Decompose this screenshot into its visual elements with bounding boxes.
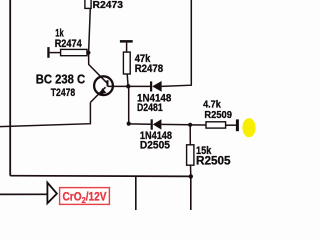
svg-text:R2473: R2473	[93, 0, 124, 11]
label: CrO2/12V red box	[60, 188, 110, 205]
terminal: supply T-bar above R2478	[120, 40, 133, 43]
wire: bottom horizontal rail	[10, 175, 191, 178]
wire: emitter down and left to edge	[0, 102, 90, 126]
wire: base lead (vertical + diagonal)	[89, 53, 108, 83]
node: collector junction	[126, 84, 130, 88]
wire: junction to diode D2481	[128, 85, 150, 87]
resistor R2505	[187, 125, 231, 177]
svg-text:R2474: R2474	[55, 38, 83, 50]
diode D2481 1N4148	[137, 81, 171, 114]
wire: left vertical rail	[9, 0, 11, 176]
node: junction at second diode line	[127, 122, 131, 126]
resistor R2478	[123, 43, 163, 87]
svg-text:D2481: D2481	[137, 102, 163, 114]
diode D2505 1N4148	[140, 119, 172, 151]
wire: junction to diode D2505	[129, 123, 151, 125]
node: base junction	[86, 51, 90, 55]
wire: D2505 cathode to junction	[161, 123, 190, 125]
svg-text:R2478: R2478	[135, 63, 164, 75]
wire: D2481 cathode to top-right rail	[162, 0, 192, 86]
svg-text:D2505: D2505	[140, 140, 170, 152]
node: bottom junction	[189, 174, 193, 178]
wire: collector to junction	[108, 85, 129, 87]
highlight: yellow marker dot	[242, 118, 255, 137]
wire: lead into R2474	[50, 52, 61, 54]
svg-text:R2505: R2505	[196, 153, 231, 167]
svg-text:BC 238 C: BC 238 C	[36, 72, 86, 87]
resistor R2474	[55, 28, 87, 56]
svg-text:T2478: T2478	[51, 87, 75, 99]
wire: vertical between diode lines	[128, 86, 130, 123]
wire: bottom-left signal line	[0, 193, 47, 195]
wire: bottom drop at x=136	[135, 176, 137, 210]
resistor R2473	[85, 0, 123, 53]
node: junction R2505/R2509	[188, 123, 192, 127]
resistor R2509	[190, 99, 236, 129]
wire: R2474 to junction	[87, 52, 88, 54]
wire: bottom drop at x=191	[190, 176, 192, 210]
svg-text:R2509: R2509	[204, 109, 232, 121]
terminal: output bar after R2509	[236, 119, 239, 131]
transistor Q1 BC238C	[36, 72, 113, 103]
connector: open arrow	[47, 183, 57, 204]
terminal: input stub of R2474	[47, 47, 49, 58]
